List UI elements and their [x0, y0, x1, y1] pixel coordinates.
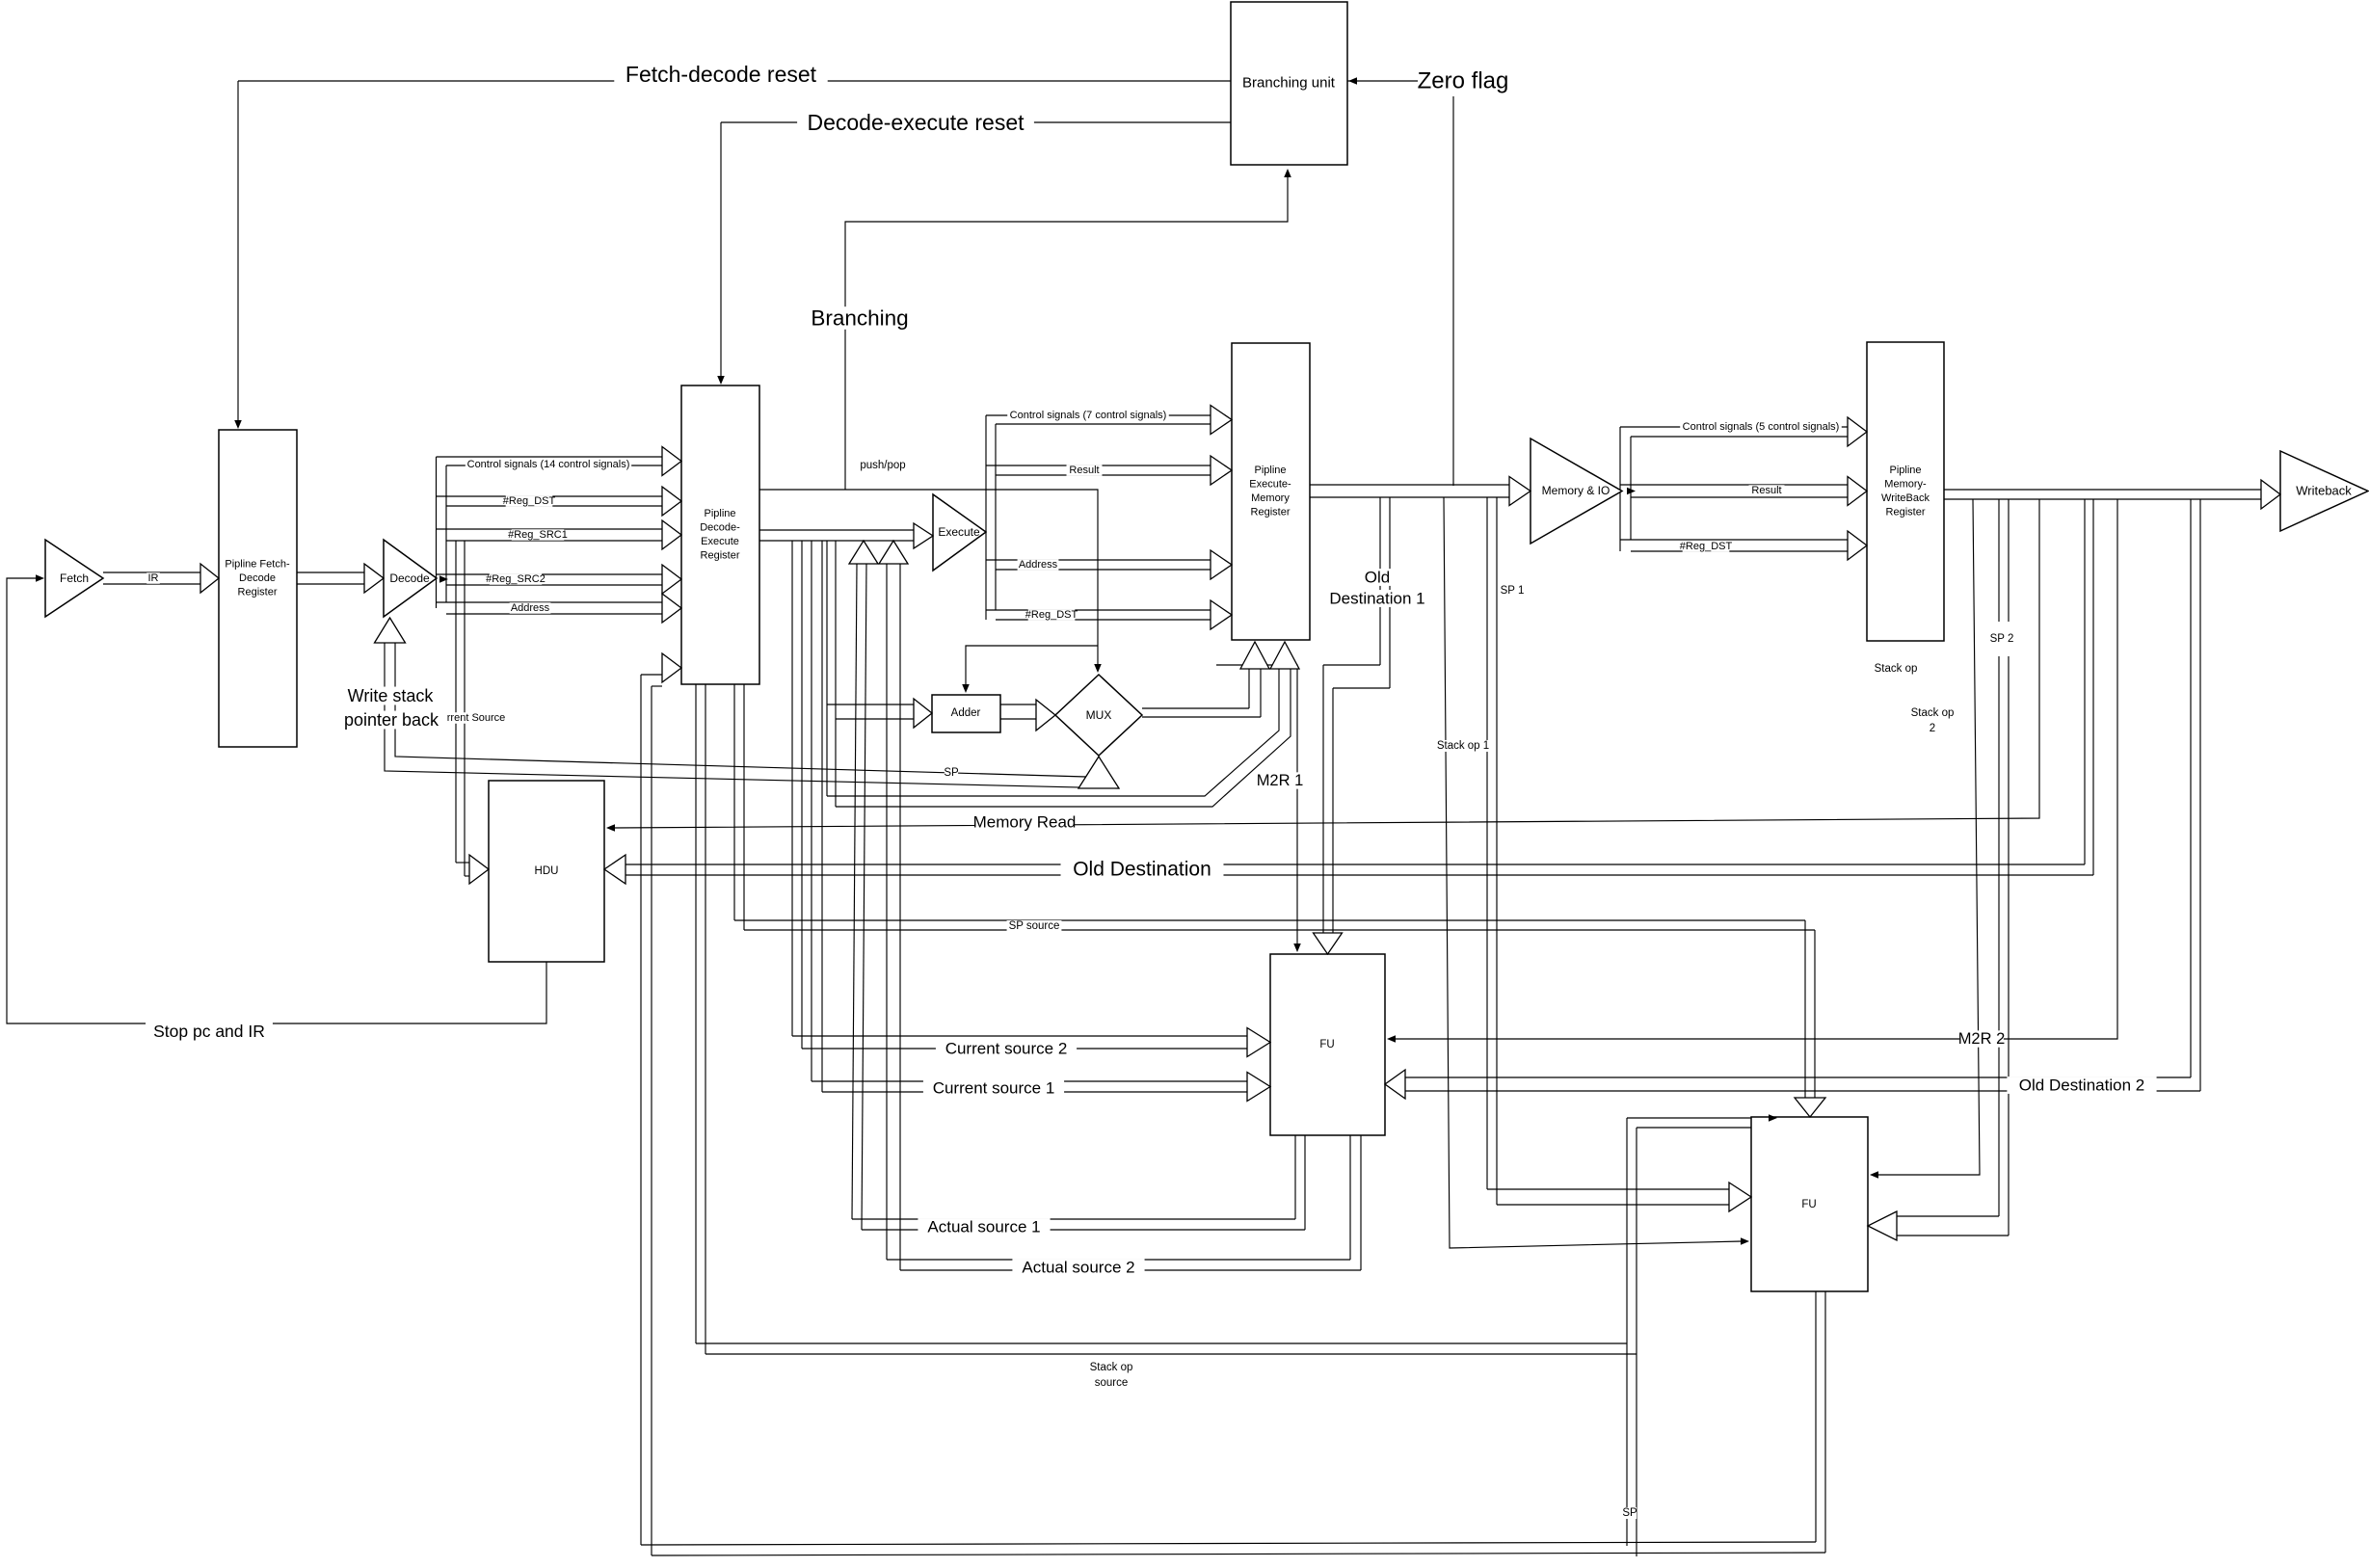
svg-text:source: source	[1095, 1377, 1129, 1389]
svg-text:Decode-: Decode-	[700, 522, 740, 534]
svg-text:Actual source 1: Actual source 1	[927, 1218, 1040, 1236]
svg-text:Register: Register	[238, 587, 278, 598]
svg-text:Pipline: Pipline	[1254, 465, 1286, 476]
svg-text:WriteBack: WriteBack	[1881, 492, 1930, 504]
svg-text:#Reg_DST: #Reg_DST	[503, 495, 556, 507]
svg-text:Write stack: Write stack	[348, 686, 435, 705]
svg-text:Register: Register	[1251, 507, 1291, 518]
svg-text:Current source 2: Current source 2	[945, 1040, 1068, 1058]
svg-text:Current source 1: Current source 1	[933, 1079, 1055, 1098]
svg-text:push/pop: push/pop	[860, 460, 905, 471]
svg-text:Fetch: Fetch	[60, 571, 89, 585]
svg-text:Actual source 2: Actual source 2	[1022, 1259, 1134, 1277]
svg-text:Execute-: Execute-	[1249, 479, 1291, 491]
svg-text:Pipline: Pipline	[704, 508, 735, 519]
svg-text:#Reg_DST: #Reg_DST	[1025, 609, 1078, 621]
svg-text:Pipline: Pipline	[1889, 465, 1921, 476]
svg-text:Zero flag: Zero flag	[1418, 68, 1509, 94]
svg-text:Stack op: Stack op	[1875, 663, 1918, 675]
svg-text:Decode-execute reset: Decode-execute reset	[807, 110, 1025, 135]
svg-text:Decode: Decode	[389, 571, 430, 585]
svg-text:2: 2	[1930, 723, 1935, 734]
svg-text:Result: Result	[1751, 485, 1781, 496]
svg-text:Stack op 1: Stack op 1	[1437, 740, 1489, 752]
svg-text:MUX: MUX	[1086, 708, 1112, 722]
svg-text:Memory Read: Memory Read	[973, 813, 1077, 832]
svg-text:Branching unit: Branching unit	[1242, 75, 1336, 92]
svg-text:M2R 1: M2R 1	[1257, 772, 1304, 789]
svg-text:SP: SP	[944, 767, 959, 779]
svg-text:Memory-: Memory-	[1884, 479, 1927, 491]
svg-text:#Reg_SRC2: #Reg_SRC2	[486, 573, 546, 585]
svg-text:Destination 1: Destination 1	[1329, 590, 1424, 608]
svg-text:Control signals (7 control sig: Control signals (7 control signals)	[1010, 410, 1167, 421]
svg-text:Old Destination: Old Destination	[1073, 859, 1211, 881]
svg-text:Result: Result	[1069, 465, 1099, 476]
svg-text:Old: Old	[1365, 569, 1390, 587]
svg-text:FU: FU	[1801, 1199, 1816, 1210]
svg-text:SP: SP	[1622, 1507, 1637, 1519]
svg-text:Memory: Memory	[1251, 492, 1290, 504]
svg-text:Execute: Execute	[701, 536, 739, 547]
svg-text:M2R 2: M2R 2	[1958, 1030, 2006, 1048]
svg-text:#Reg_DST: #Reg_DST	[1680, 541, 1733, 552]
svg-text:Address: Address	[511, 602, 550, 614]
svg-text:Writeback: Writeback	[2296, 484, 2352, 498]
svg-text:Memory & IO: Memory & IO	[1542, 484, 1610, 497]
svg-text:Decode: Decode	[239, 572, 276, 584]
svg-text:Stack op: Stack op	[1090, 1362, 1133, 1373]
svg-text:Branching: Branching	[811, 306, 908, 331]
svg-text:Stop pc and IR: Stop pc and IR	[153, 1022, 265, 1041]
svg-text:SP source: SP source	[1009, 920, 1060, 932]
svg-text:Control signals (14 control si: Control signals (14 control signals)	[467, 459, 630, 470]
svg-text:Adder: Adder	[951, 707, 981, 719]
svg-text:Stack op: Stack op	[1911, 707, 1955, 719]
svg-text:IR: IR	[148, 572, 159, 584]
svg-text:Address: Address	[1019, 559, 1058, 571]
svg-text:Register: Register	[701, 550, 740, 562]
svg-text:Execute: Execute	[938, 525, 980, 539]
svg-text:FU: FU	[1319, 1039, 1334, 1050]
svg-text:Pipline Fetch-: Pipline Fetch-	[225, 559, 290, 571]
svg-text:SP 2: SP 2	[1990, 633, 2014, 645]
svg-text:#Reg_SRC1: #Reg_SRC1	[508, 529, 568, 541]
svg-text:Old Destination 2: Old Destination 2	[2019, 1076, 2144, 1095]
svg-text:SP 1: SP 1	[1501, 585, 1525, 597]
svg-text:HDU: HDU	[535, 865, 559, 877]
svg-text:Register: Register	[1886, 507, 1926, 518]
svg-text:pointer back: pointer back	[344, 710, 439, 730]
svg-text:Control signals (5 control sig: Control signals (5 control signals)	[1683, 421, 1840, 433]
svg-text:Fetch-decode reset: Fetch-decode reset	[626, 62, 817, 87]
